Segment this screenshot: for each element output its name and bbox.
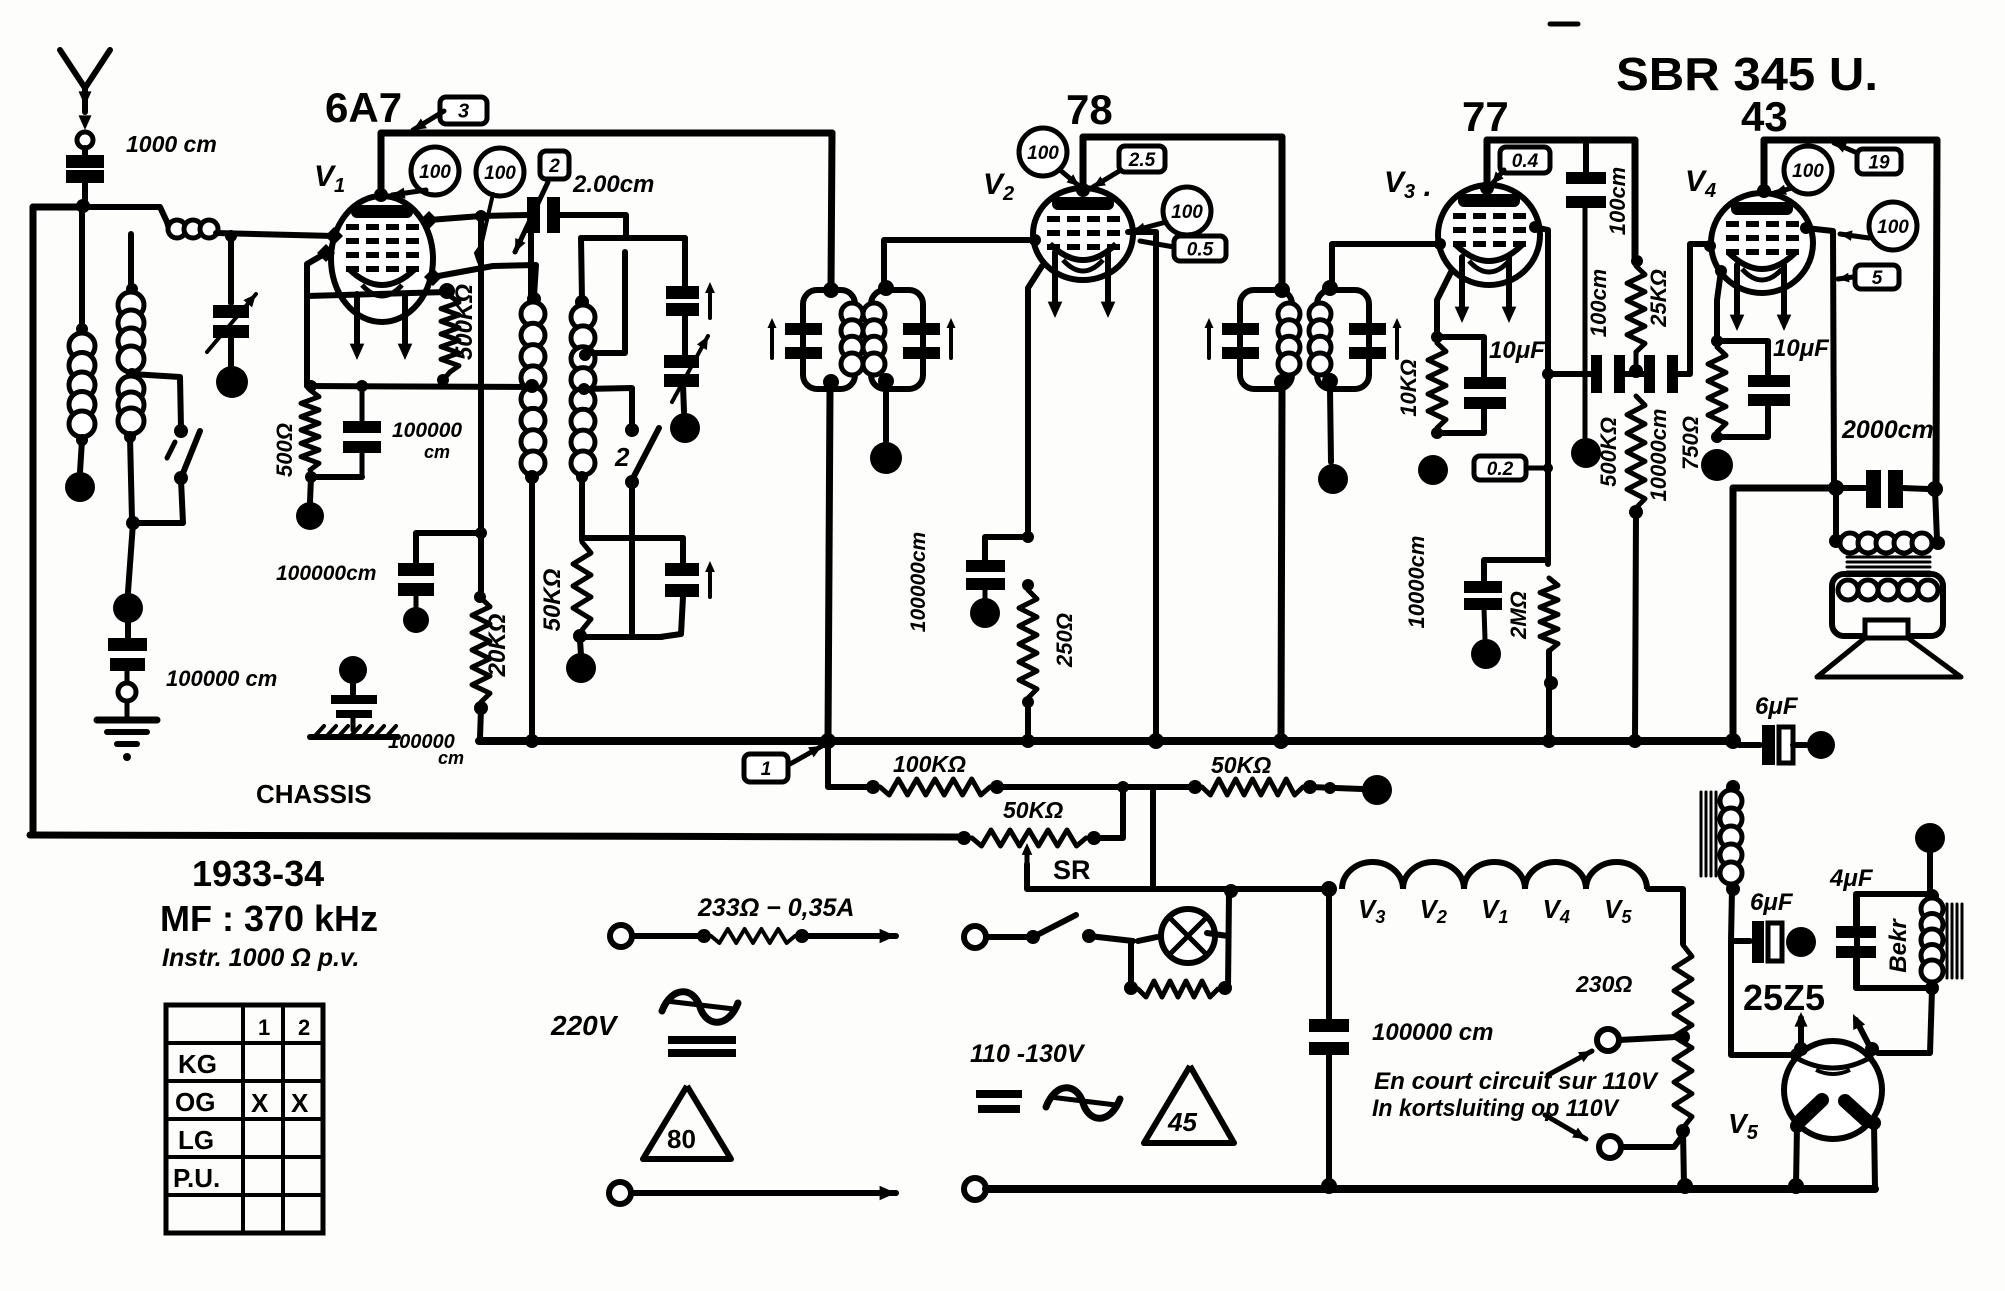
box 5 xyxy=(1855,265,1899,289)
IF1 secondary coil xyxy=(863,303,885,325)
wire to blob xyxy=(310,477,311,502)
wire V2 rail down to IF2 xyxy=(1279,137,1286,288)
svg-text:2.5: 2.5 xyxy=(1128,150,1156,171)
blob V2 cathode cap xyxy=(970,598,1000,628)
svg-text:6μF: 6μF xyxy=(1755,693,1799,720)
circle 100 (V2 left) xyxy=(1019,128,1067,176)
chassis capacitor 100000cm xyxy=(350,684,356,694)
terminal 110V lower xyxy=(1599,1136,1621,1158)
node V4 grid xyxy=(1704,240,1716,252)
svg-text:cm: cm xyxy=(424,442,450,462)
trimmer capacitor column top xyxy=(682,238,688,286)
svg-text:2MΩ: 2MΩ xyxy=(1506,591,1531,640)
heater column capacitor 100000cm xyxy=(1326,889,1332,1019)
blob L1 bottom xyxy=(65,472,95,502)
capacitor 2.00cm xyxy=(527,197,540,233)
svg-text:80: 80 xyxy=(667,1124,696,1154)
wire osc bottom xyxy=(580,634,662,640)
wire to 25Z5 plate xyxy=(1731,941,1790,1055)
blob chassis end of trimmer xyxy=(216,366,248,398)
pot wiper arrow xyxy=(1025,849,1030,864)
blob 6uF second xyxy=(1786,927,1816,957)
node 500K bottom xyxy=(437,374,449,386)
box 1 xyxy=(744,754,788,782)
node L2 bottom junction xyxy=(126,516,140,530)
box 19 xyxy=(1857,149,1901,174)
tube V2 cathode arrows xyxy=(1052,252,1058,308)
svg-text:0.5: 0.5 xyxy=(1187,239,1214,260)
resistor 500 Ohm (V1 cathode) xyxy=(301,390,319,470)
output transformer core xyxy=(1847,556,1930,559)
tube V3 cathode arrows xyxy=(1459,257,1465,313)
wire choke to 6uF2 xyxy=(1731,889,1732,941)
svg-text:100000: 100000 xyxy=(392,419,462,442)
wire padder bottom xyxy=(660,597,683,637)
blob 6uF xyxy=(1807,731,1835,759)
arrow box 5 to screen line xyxy=(1838,277,1853,279)
blob V1 cathode chassis xyxy=(296,502,324,530)
tube V5 (25Z5) envelope xyxy=(1784,1041,1882,1139)
wire coupling to V4 grid xyxy=(1678,244,1706,374)
svg-text:100KΩ: 100KΩ xyxy=(893,751,966,777)
field choke coil xyxy=(1726,780,1740,794)
tube V1 cathode arrows xyxy=(354,294,360,350)
terminal 110V upper xyxy=(1597,1029,1619,1051)
bottom rail xyxy=(986,1185,1875,1193)
node IF2 secondary bottom xyxy=(1322,373,1338,389)
switch 1 lower contact xyxy=(174,471,188,485)
svg-text:1: 1 xyxy=(761,759,772,780)
diamond V1 grid upper right xyxy=(420,211,438,229)
IF1 primary tank box xyxy=(823,282,839,298)
node IF1 secondary bottom xyxy=(878,373,894,389)
box 0.4 xyxy=(1500,147,1550,173)
wire B+ to 2000cm node xyxy=(1733,485,1836,492)
box 3 xyxy=(440,97,487,124)
box 2 xyxy=(540,151,569,179)
wire heater chain right xyxy=(1648,889,1683,944)
long AVC rail xyxy=(30,835,962,837)
svg-text:In kortsluiting op 110V: In kortsluiting op 110V xyxy=(1372,1095,1620,1122)
svg-text:X: X xyxy=(291,1088,309,1118)
node 25K top xyxy=(1631,255,1643,267)
tube V3 grid cap lead xyxy=(1480,181,1494,195)
svg-text:P.U.: P.U. xyxy=(173,1163,220,1193)
svg-text:1933-34: 1933-34 xyxy=(192,853,324,894)
variable tuning capacitor xyxy=(682,314,688,355)
arrow box 2.5 to cap xyxy=(1093,170,1121,187)
wire V1 to 2.00cm capacitor xyxy=(429,216,481,220)
svg-text:Instr. 1000 Ω p.v.: Instr. 1000 Ω p.v. xyxy=(162,944,359,972)
svg-text:1000 cm: 1000 cm xyxy=(126,131,217,157)
wire Bekr bottom xyxy=(1857,985,1928,991)
arrow on padder xyxy=(708,567,712,597)
wire V5 right plate to Bekr xyxy=(1878,990,1932,1053)
arrow circle to screen line xyxy=(1840,234,1869,238)
svg-text:KG: KG xyxy=(178,1049,217,1079)
resistor 230 Ohm xyxy=(1674,945,1692,1128)
svg-text:19: 19 xyxy=(1868,152,1890,173)
blob IF2 secondary xyxy=(1318,464,1348,494)
diamond V1 signal grid (left) xyxy=(325,227,343,245)
svg-text:5: 5 xyxy=(1872,268,1883,289)
svg-text:10μF: 10μF xyxy=(1773,335,1830,362)
diamond V1 osc grid lower right xyxy=(424,268,442,286)
antenna symbol xyxy=(60,50,110,88)
box 2.5 xyxy=(1119,146,1165,172)
wire IF1 secondary top to V2 grid xyxy=(884,240,1033,288)
resistor 20K Ohm xyxy=(474,591,486,603)
antenna terminal xyxy=(77,132,93,148)
blob V4 cathode xyxy=(1701,449,1733,481)
lamp (dial light) xyxy=(1161,909,1215,963)
V5 plate dots xyxy=(1794,1042,1808,1056)
padder capacitor (lower) xyxy=(680,538,686,563)
node SR lamp riser xyxy=(1224,884,1238,898)
wire down to right osc coil xyxy=(581,238,582,300)
switch 2 lower contact xyxy=(625,475,639,489)
antenna primary coil L1 xyxy=(76,323,88,335)
secondary coil L2 upper half xyxy=(126,283,138,295)
pointer box 0.5 xyxy=(1140,241,1174,247)
tube V4 (43) envelope xyxy=(1711,193,1813,293)
resistor 500K Ohm (V4 grid leak) xyxy=(1627,396,1645,508)
tube V4 grid cap lead xyxy=(1757,184,1771,198)
node coupling junction xyxy=(1542,368,1554,380)
wire down to antenna trimmer xyxy=(228,236,234,303)
capacitor 100cm (under rail) xyxy=(1583,143,1589,172)
svg-text:4μF: 4μF xyxy=(1829,865,1874,892)
main bus rail xyxy=(479,737,1733,745)
node series caps center xyxy=(1629,364,1643,378)
DC bars 220V xyxy=(668,1036,736,1044)
node IF1 primary bottom xyxy=(823,374,839,390)
node under-tube junction xyxy=(439,283,455,299)
node antenna junction xyxy=(76,199,90,213)
wire to secondary coil L2 xyxy=(128,234,134,287)
svg-text:2: 2 xyxy=(548,156,560,177)
wire 2000cm left down to transformer xyxy=(1833,488,1839,538)
capacitor 4uF xyxy=(1853,894,1859,926)
capacitor 100000cm (V1 cathode bypass) xyxy=(360,386,365,421)
svg-text:110 -130V: 110 -130V xyxy=(970,1040,1086,1068)
resistor 500K Ohm (osc grid leak) xyxy=(441,296,459,372)
svg-text:100: 100 xyxy=(1792,161,1824,182)
svg-text:10KΩ: 10KΩ xyxy=(1396,359,1421,417)
IF2 secondary coil xyxy=(1309,303,1331,325)
svg-text:100000 cm: 100000 cm xyxy=(166,666,277,691)
wire top rail down to IF1 xyxy=(831,133,832,289)
wire junction down to 20K resistor xyxy=(478,216,484,591)
terminal 220V top xyxy=(610,925,632,947)
node 20K bottom xyxy=(474,701,488,715)
svg-text:100000 cm: 100000 cm xyxy=(1372,1019,1493,1046)
wire antenna junction to coupling coil xyxy=(83,207,170,232)
svg-text:100: 100 xyxy=(419,162,451,183)
resistor 50K Ohm (osc) xyxy=(573,542,591,630)
capacitor 10uF (V3 cathode) xyxy=(1437,337,1484,377)
svg-text:50KΩ: 50KΩ xyxy=(1003,797,1063,823)
blob tuning cap xyxy=(670,413,700,443)
svg-text:0.2: 0.2 xyxy=(1487,459,1514,480)
svg-text:10μF: 10μF xyxy=(1489,337,1546,364)
node bus right end xyxy=(1725,733,1741,749)
svg-text:25Z5: 25Z5 xyxy=(1743,977,1825,1018)
capacitor 10000cm (V3 plate) xyxy=(1484,560,1548,581)
svg-text:100: 100 xyxy=(1027,143,1059,164)
svg-text:2000cm: 2000cm xyxy=(1841,416,1934,444)
svg-text:2: 2 xyxy=(614,442,630,472)
IF1 primary capacitor xyxy=(785,323,822,335)
svg-text:1: 1 xyxy=(258,1015,270,1040)
node bus V2 screen xyxy=(1148,733,1164,749)
screen line V2 down to bus xyxy=(1153,232,1159,740)
svg-text:100cm: 100cm xyxy=(1586,269,1611,338)
node 230 bottom tap xyxy=(1676,1124,1690,1138)
wire IF2 secondary bottom to blob xyxy=(1330,389,1331,462)
V4 screen/plate line down xyxy=(1806,228,1834,487)
wire divider riser xyxy=(1150,787,1156,889)
svg-text:750Ω: 750Ω xyxy=(1678,416,1703,470)
top rail from V1 grid cap to IF1 xyxy=(381,130,832,137)
node V3 plate right xyxy=(1529,221,1541,233)
triangle fuse 80 xyxy=(643,1086,731,1159)
svg-text:100cm: 100cm xyxy=(1605,167,1630,236)
wire L2 bottom to junction xyxy=(130,437,132,520)
node right coil bottom xyxy=(576,471,588,483)
arrow circle to V2 cap xyxy=(1060,170,1079,186)
svg-text:0.4: 0.4 xyxy=(1512,151,1539,172)
V4 cathode network xyxy=(1715,265,1727,277)
antenna trimmer capacitor xyxy=(213,305,249,318)
wire 20K line to second cap xyxy=(416,533,481,563)
V5 cathode pins xyxy=(1801,1100,1822,1120)
blob chassis column xyxy=(339,656,367,684)
wire rail corner down xyxy=(1632,140,1639,258)
svg-text:230Ω: 230Ω xyxy=(1575,971,1632,997)
arrow circle to V4 cap xyxy=(1774,188,1792,193)
wire 220V bottom xyxy=(631,1190,896,1196)
V2 cathode wire down xyxy=(1028,266,1042,537)
arrow from box 3 to rail xyxy=(413,111,444,130)
wire IF1 secondary bottom to blob xyxy=(883,389,889,441)
IF2 primary capacitor xyxy=(1222,323,1259,335)
earth terminal circle xyxy=(125,669,130,684)
arrow box 19 to rail xyxy=(1834,143,1855,152)
speaker cone xyxy=(1817,638,1961,677)
svg-text:100: 100 xyxy=(1877,217,1909,238)
wire left coil bottom to bus xyxy=(529,477,535,738)
arrow box 1 to bus xyxy=(790,746,822,764)
antenna series capacitor 1000cm xyxy=(82,148,88,155)
svg-text:10000cm: 10000cm xyxy=(1646,409,1671,502)
earth (ground) symbol xyxy=(125,701,130,719)
terminal 220V bottom xyxy=(609,1182,631,1204)
wire switch to lamp xyxy=(1089,936,1133,941)
tube V3 (77) envelope xyxy=(1438,185,1540,285)
wire rail right down to 2000cm xyxy=(1936,140,1937,487)
node SR heater column xyxy=(1321,881,1337,897)
wire IF1 primary to bus xyxy=(828,389,830,740)
wire left coil top to 2.00cm junction xyxy=(528,215,534,297)
switch 1 lever xyxy=(181,431,200,478)
node cathode resistor bottom xyxy=(305,471,317,483)
wire 230 to bottom rail xyxy=(1683,1131,1684,1186)
resistor 10K Ohm xyxy=(1428,343,1446,428)
arrow circle to V2 side xyxy=(1133,222,1166,231)
blob 10000cm xyxy=(1471,639,1501,669)
svg-text:CHASSIS: CHASSIS xyxy=(256,779,372,809)
svg-text:25KΩ: 25KΩ xyxy=(1646,269,1671,328)
box 0.5 xyxy=(1174,236,1226,261)
AC symbol 110V xyxy=(1046,1088,1120,1119)
IF2 primary coil xyxy=(1278,303,1300,325)
node 2000cm left xyxy=(1828,480,1844,496)
svg-text:78: 78 xyxy=(1066,86,1113,133)
svg-text:SBR 345 U.: SBR 345 U. xyxy=(1616,48,1878,100)
svg-text:20KΩ: 20KΩ xyxy=(484,613,511,677)
left oscillator coil xyxy=(527,292,541,306)
resistor 50K Ohm (divider) xyxy=(1188,780,1202,794)
blob 100cm xyxy=(1571,438,1601,468)
svg-text:100000cm: 100000cm xyxy=(907,532,930,632)
svg-text:2.00cm: 2.00cm xyxy=(572,171,654,198)
IF1 primary coil xyxy=(841,303,863,325)
rail V2 grid cap to IF2 xyxy=(1083,134,1282,141)
node 230 tap xyxy=(1676,1030,1690,1044)
V3 cathode network xyxy=(1437,270,1452,337)
V5 plate arrows xyxy=(1798,1018,1804,1045)
Bekr coil xyxy=(1921,898,1943,920)
node right coil tap 2 xyxy=(578,383,590,395)
wire IF2 secondary top to V3 grid xyxy=(1332,244,1437,288)
blob earth column xyxy=(113,593,143,623)
tube V4 cathode arrows xyxy=(1734,265,1740,321)
wire tap to wave switch 1 xyxy=(132,374,181,428)
svg-text:SR: SR xyxy=(1053,855,1091,885)
node heater column xyxy=(1324,782,1336,794)
earth capacitor 100000cm plates xyxy=(108,638,147,651)
output transformer primary xyxy=(1829,534,1843,548)
svg-text:LG: LG xyxy=(178,1125,214,1155)
left rail wire (antenna down to AVC rail) xyxy=(30,207,37,835)
node cathode cap junction xyxy=(1022,531,1034,543)
IF1 secondary capacitor xyxy=(903,323,940,335)
svg-text:500KΩ: 500KΩ xyxy=(1596,417,1621,487)
svg-text:X: X xyxy=(251,1088,269,1118)
arrow IF1 left xyxy=(770,324,774,358)
wire antenna column down xyxy=(79,212,85,330)
potentiometer 50K Ohm (SR volume) xyxy=(957,831,971,845)
node left coil bottom xyxy=(525,470,539,484)
terminal 110V switch xyxy=(964,926,986,948)
field winding Bekr loop xyxy=(1857,894,1928,988)
tube V1 grid-cap lead xyxy=(374,188,388,202)
wire blob to earth capacitor xyxy=(125,620,131,640)
svg-text:6A7: 6A7 xyxy=(325,84,402,131)
node V4 screen xyxy=(1800,222,1812,234)
diamond V1 lower-left electrode xyxy=(317,244,335,262)
wire osc tank top xyxy=(581,235,685,241)
right oscillator coil xyxy=(575,295,589,309)
arrow to upper terminal xyxy=(1548,1051,1592,1075)
node bus 500K xyxy=(1628,734,1642,748)
node right coil tap 1 xyxy=(579,349,591,361)
terminal bottom rail xyxy=(964,1178,986,1200)
capacitor 100000cm (osc padding) xyxy=(398,563,434,576)
node bus IF2 xyxy=(1273,733,1289,749)
band switch table xyxy=(166,1005,323,1233)
V2 cathode bypass capacitor 100000cm xyxy=(985,537,1028,560)
svg-text:Bekr: Bekr xyxy=(1885,918,1912,973)
speaker frame and secondary xyxy=(1832,574,1943,636)
wire to left rail xyxy=(33,204,83,211)
wire bus to 100K xyxy=(828,741,868,787)
resistor 2M Ohm xyxy=(1540,578,1558,651)
switch mains xyxy=(986,934,1026,940)
arrow on fixed trimmer xyxy=(708,288,712,318)
rail V3 to coupling xyxy=(1487,137,1635,144)
tube V1 (6A7) envelope xyxy=(331,196,433,322)
circle 100 (V4 left) xyxy=(1784,146,1832,194)
resistor 100K Ohm xyxy=(866,780,880,794)
svg-text:50KΩ: 50KΩ xyxy=(539,568,566,631)
IF2 secondary tank box xyxy=(1322,280,1338,296)
resistor 250 Ohm (V2 cathode) xyxy=(1022,579,1034,591)
node IF2 primary bottom xyxy=(1274,374,1290,390)
node bus IF1 xyxy=(820,733,836,749)
blob Bekr top xyxy=(1915,823,1945,853)
wire switch down to osc bottom wire xyxy=(629,482,635,637)
svg-text:250Ω: 250Ω xyxy=(1052,613,1077,668)
capacitor 6uF (bus end) xyxy=(1739,742,1760,748)
wire tap2 to switch 2 xyxy=(584,388,632,428)
blob divider end xyxy=(1362,775,1392,805)
wire 2000cm right down to transformer xyxy=(1935,489,1937,540)
IF1 secondary tank box xyxy=(878,280,894,296)
node V3 grid left xyxy=(1434,238,1446,250)
label 1 (switch) xyxy=(167,442,175,458)
rail V4 top xyxy=(1764,137,1937,144)
resistor 233 Ohm 0.35A line xyxy=(632,933,698,939)
node pot riser xyxy=(1117,781,1129,793)
wire 100K to 50K xyxy=(997,784,1190,790)
svg-text:OG: OG xyxy=(175,1087,215,1117)
svg-text:45: 45 xyxy=(1167,1107,1197,1137)
capacitor 10uF (V4 cathode) xyxy=(1719,341,1768,375)
arrow IF1 right xyxy=(949,324,953,358)
circle 100 (V1 right) xyxy=(476,148,524,196)
SR wire xyxy=(1027,864,1329,889)
fixed trimmer capacitor xyxy=(666,286,699,299)
circle 100 (V1 left) xyxy=(411,147,459,195)
IF2 secondary capacitor xyxy=(1349,323,1386,335)
wire cap bottom to resistor bottom xyxy=(311,474,362,480)
DC bars 110V xyxy=(976,1090,1022,1098)
svg-text:77: 77 xyxy=(1462,93,1509,140)
pointer from circle 100 to oscillator wire xyxy=(476,194,493,262)
lamp shunt resistor xyxy=(1128,941,1134,985)
svg-text:100: 100 xyxy=(1171,202,1203,223)
wire junction to switch lower contact xyxy=(133,480,183,523)
node bus 250 xyxy=(1021,734,1035,748)
capacitor 2000cm xyxy=(1844,485,1866,491)
switch 2 upper contact xyxy=(625,423,639,437)
wire lower-left electrode down xyxy=(307,253,326,386)
tube V2 (78) envelope xyxy=(1033,188,1133,280)
circle 100 (V2 right) xyxy=(1163,187,1211,235)
secondary coil L2 lower half xyxy=(118,376,144,402)
